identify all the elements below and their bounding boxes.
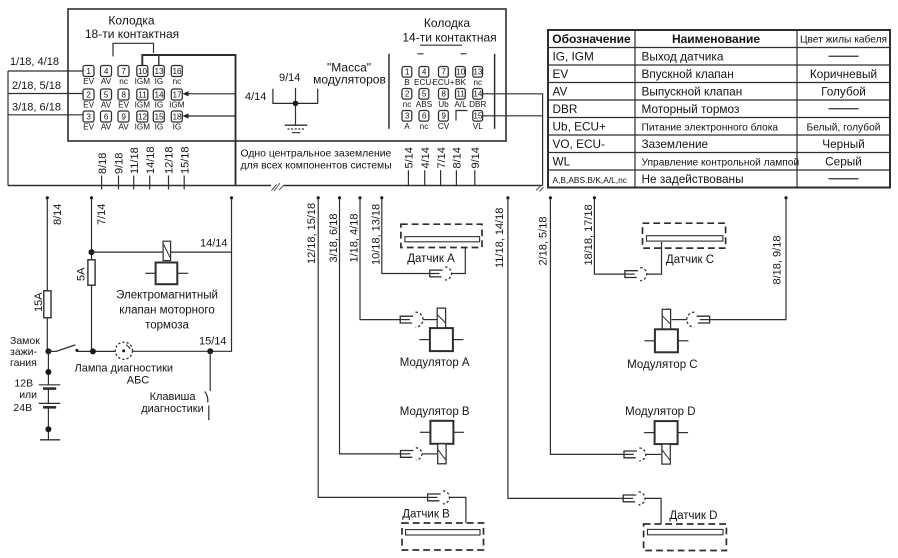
connector X7 Модулятор D plug bbox=[624, 451, 637, 458]
svg-text:15/14: 15/14 bbox=[199, 336, 227, 348]
wire stub 12/18 bbox=[168, 176, 170, 190]
J1 pin 18 bbox=[171, 111, 182, 122]
battery GB1 12V/24V bbox=[47, 351, 49, 384]
svg-text:2/18, 5/18: 2/18, 5/18 bbox=[538, 217, 550, 266]
wire stub 11/18 bbox=[133, 176, 135, 190]
svg-text:24В: 24В bbox=[13, 402, 32, 414]
wire stub 5/14 bbox=[407, 170, 409, 185]
wire to J1 pin 2 bbox=[8, 93, 83, 95]
svg-text:3/18, 6/18: 3/18, 6/18 bbox=[12, 102, 61, 114]
svg-text:Не задействованы: Не задействованы bbox=[642, 172, 744, 186]
modulator D Модулятор D bbox=[655, 421, 678, 444]
svg-text:IG: IG bbox=[155, 77, 164, 86]
wire ground stem bbox=[295, 88, 297, 125]
svg-text:15: 15 bbox=[473, 112, 483, 121]
svg-text:18: 18 bbox=[172, 112, 182, 121]
J1 pin 3 bbox=[83, 111, 94, 122]
svg-text:ECU+: ECU+ bbox=[432, 78, 454, 87]
J1 label leader bracket bbox=[113, 43, 154, 56]
J1 pin 13 bbox=[153, 66, 164, 77]
svg-text:1: 1 bbox=[405, 68, 410, 77]
svg-text:Датчик B: Датчик B bbox=[402, 509, 450, 521]
ground GND1 bbox=[285, 124, 308, 126]
svg-text:5: 5 bbox=[422, 90, 427, 99]
svg-text:6: 6 bbox=[422, 112, 427, 121]
wire 10/18,13/18 vertical bbox=[381, 198, 383, 274]
switch S2 Клавиша диагностики bbox=[209, 351, 211, 391]
J2 row3 spacer bracket bbox=[456, 111, 468, 121]
J1 pin 14 bbox=[153, 89, 164, 100]
svg-text:WL: WL bbox=[553, 154, 571, 168]
wire arrow into J1 pin 18 bbox=[185, 115, 236, 117]
wire Датчик A plug to body bbox=[452, 248, 466, 274]
wire plug to Модулятор B bbox=[422, 453, 437, 455]
svg-text:4/14: 4/14 bbox=[245, 91, 266, 103]
svg-text:EV: EV bbox=[83, 122, 94, 131]
svg-text:18-ти контактная: 18-ти контактная bbox=[85, 27, 179, 41]
svg-text:Модулятор A: Модулятор A bbox=[400, 357, 470, 369]
wire stub 7/14 bbox=[440, 170, 442, 185]
wire 15/14 vertical bbox=[231, 198, 233, 352]
J2 pin 13 bbox=[473, 67, 483, 78]
wire net EV/AV 1-6: left bus vertical bbox=[7, 71, 9, 186]
svg-text:ABS: ABS bbox=[416, 100, 433, 109]
svg-text:Одно центральное заземление: Одно центральное заземление bbox=[241, 149, 392, 160]
svg-text:5: 5 bbox=[104, 90, 109, 99]
svg-text:Модулятор D: Модулятор D bbox=[625, 406, 695, 418]
svg-text:Клавиша: Клавиша bbox=[150, 391, 197, 403]
svg-text:Наименование: Наименование bbox=[672, 32, 760, 46]
svg-text:9: 9 bbox=[441, 112, 446, 121]
wire to Датчик A plug bbox=[382, 273, 430, 275]
sensor B1 Датчик A body bbox=[401, 224, 482, 247]
svg-text:8/14: 8/14 bbox=[452, 147, 464, 168]
svg-text:10: 10 bbox=[456, 68, 466, 77]
modulator A Модулятор A bbox=[437, 308, 445, 328]
J2 label underline bbox=[420, 44, 462, 46]
svg-text:EV: EV bbox=[118, 100, 129, 109]
J2 pin 10 bbox=[456, 67, 466, 78]
sensor B4 Датчик D body bbox=[644, 524, 727, 551]
connector J2 "Колодка 14-ти контактная" title bbox=[402, 16, 496, 45]
wire 7/14 vertical bbox=[91, 198, 93, 352]
J1 pin 6 bbox=[101, 111, 112, 122]
svg-text:Коричневый: Коричневый bbox=[810, 67, 877, 81]
svg-text:nc: nc bbox=[403, 100, 412, 109]
junction diag key bbox=[207, 348, 213, 354]
J2 pin 11 bbox=[456, 89, 466, 100]
wire J2 pin 15 VL to harness bbox=[483, 115, 543, 117]
wire 3/18,6/18 vertical bbox=[339, 198, 341, 454]
svg-text:nc: nc bbox=[420, 122, 429, 131]
ECU box bbox=[68, 9, 506, 141]
wire to Датчик D plug bbox=[508, 497, 623, 499]
J2 pin 4 bbox=[419, 67, 429, 78]
battery terminal plate bbox=[40, 439, 60, 441]
svg-text:1: 1 bbox=[86, 67, 91, 76]
J2 pin 1 bbox=[402, 67, 412, 78]
svg-text:Цвет жилы кабеля: Цвет жилы кабеля bbox=[800, 34, 887, 46]
svg-text:1/18, 4/18: 1/18, 4/18 bbox=[10, 56, 59, 68]
svg-text:Впускной клапан: Впускной клапан bbox=[642, 67, 734, 81]
svg-text:IGM: IGM bbox=[135, 122, 151, 131]
J1 pin 12 bbox=[137, 111, 148, 122]
wire plug to Модулятор C bbox=[672, 319, 687, 321]
svg-text:7: 7 bbox=[121, 67, 126, 76]
svg-text:3: 3 bbox=[405, 112, 410, 121]
connector X4 Датчик B plug bbox=[428, 494, 441, 501]
svg-text:AV: AV bbox=[118, 122, 129, 131]
wire 1/18,4/18 vertical bbox=[359, 198, 361, 320]
svg-text:5A: 5A bbox=[76, 267, 88, 281]
wire stub 9/14 bbox=[474, 170, 476, 185]
svg-text:Лампа диагностики: Лампа диагностики bbox=[75, 363, 174, 375]
J1 pin 17 bbox=[171, 89, 182, 100]
svg-text:АБС: АБС bbox=[127, 375, 149, 387]
solenoid valve Y1 body bbox=[156, 263, 178, 285]
junction bbox=[293, 101, 299, 107]
connector X3 Модулятор B plug bbox=[401, 451, 414, 458]
connector X1 Датчик A plug bbox=[430, 270, 443, 277]
wire to modulator A plug bbox=[360, 319, 400, 321]
svg-text:15A: 15A bbox=[33, 292, 45, 312]
J1 pin 10 bbox=[137, 66, 148, 77]
svg-text:12/18: 12/18 bbox=[164, 146, 176, 174]
wire stub 8/18 bbox=[101, 176, 103, 190]
svg-text:Колодка: Колодка bbox=[424, 16, 470, 30]
svg-text:1/18, 4/18: 1/18, 4/18 bbox=[349, 214, 361, 263]
svg-text:3: 3 bbox=[86, 112, 91, 121]
svg-text:14: 14 bbox=[473, 90, 483, 99]
wire to Датчик B plug bbox=[318, 496, 427, 498]
svg-text:8/18, 9/18: 8/18, 9/18 bbox=[772, 236, 784, 285]
svg-text:9: 9 bbox=[121, 112, 126, 121]
wire to J1 pin 1 bbox=[8, 70, 83, 72]
svg-text:EV: EV bbox=[83, 100, 94, 109]
J1 pin 4 bbox=[101, 66, 112, 77]
svg-text:A,B,ABS.B/K,A/L,nc: A,B,ABS.B/K,A/L,nc bbox=[553, 175, 627, 185]
harness break mark bbox=[272, 183, 285, 191]
svg-text:AV: AV bbox=[101, 100, 112, 109]
svg-text:B: B bbox=[404, 78, 410, 87]
J1 pin 1 bbox=[83, 66, 94, 77]
svg-text:Выход датчика: Выход датчика bbox=[642, 49, 724, 63]
svg-text:8: 8 bbox=[441, 90, 446, 99]
svg-text:для всех компонентов системы: для всех компонентов системы bbox=[241, 161, 392, 172]
svg-text:nc: nc bbox=[473, 78, 482, 87]
svg-text:DBR: DBR bbox=[553, 102, 578, 116]
svg-text:Питание электронного блока: Питание электронного блока bbox=[642, 121, 779, 133]
J1 pin 7 bbox=[118, 66, 129, 77]
svg-text:тормоза: тормоза bbox=[145, 320, 189, 332]
svg-text:Белый, голубой: Белый, голубой bbox=[807, 121, 881, 133]
svg-text:CV: CV bbox=[438, 122, 450, 131]
J2 pin 6 bbox=[419, 111, 429, 122]
svg-text:DBR: DBR bbox=[469, 100, 486, 109]
J2 pin 2 bbox=[402, 89, 412, 100]
svg-text:Черный: Черный bbox=[822, 137, 865, 151]
wire Датчик D plug to body bbox=[645, 498, 661, 524]
svg-text:VL: VL bbox=[473, 122, 483, 131]
connector J1 "Колодка 18-ти контактная" title bbox=[85, 14, 179, 42]
wire Датчик B plug to body bbox=[449, 497, 466, 523]
svg-text:12: 12 bbox=[138, 112, 148, 121]
svg-text:17: 17 bbox=[172, 90, 182, 99]
svg-text:4: 4 bbox=[104, 67, 109, 76]
svg-text:4: 4 bbox=[422, 68, 427, 77]
svg-text:18/18, 17/18: 18/18, 17/18 bbox=[583, 204, 595, 265]
wire to modulator C plug bbox=[710, 319, 786, 321]
svg-text:12/18, 15/18: 12/18, 15/18 bbox=[306, 203, 318, 264]
svg-text:Ub, ECU+: Ub, ECU+ bbox=[553, 119, 607, 133]
modulator B Модулятор B bbox=[430, 421, 453, 444]
svg-text:15/18: 15/18 bbox=[179, 146, 191, 174]
svg-text:2: 2 bbox=[405, 90, 410, 99]
svg-text:2/18, 5/18: 2/18, 5/18 bbox=[12, 80, 61, 92]
wire 14/14 horizontal bbox=[92, 251, 232, 253]
wire J2 pin 14 DBR to harness bbox=[483, 94, 543, 186]
svg-text:nc: nc bbox=[119, 77, 128, 86]
J1 pin 15 bbox=[153, 111, 164, 122]
wire plug to Модулятор D bbox=[646, 453, 661, 455]
svg-text:ECU-: ECU- bbox=[414, 78, 434, 87]
svg-text:Датчик D: Датчик D bbox=[669, 510, 717, 522]
svg-text:Выпускной клапан: Выпускной клапан bbox=[642, 84, 743, 98]
wire 18/18,17/18 vertical bbox=[593, 198, 595, 275]
J2 pin 5 bbox=[419, 89, 429, 100]
svg-text:9/14: 9/14 bbox=[279, 72, 300, 84]
svg-text:4/14: 4/14 bbox=[420, 147, 432, 168]
wire stub 14/18 bbox=[149, 176, 151, 190]
svg-text:7/14: 7/14 bbox=[436, 147, 448, 168]
wire 12/18,15/18 vertical bbox=[317, 198, 319, 498]
J2 pin 7 bbox=[439, 67, 449, 78]
switch S1 Замок зажигания bbox=[45, 348, 51, 354]
svg-text:BK: BK bbox=[455, 78, 466, 87]
wire plug to Модулятор A bbox=[423, 319, 437, 321]
J1 pin 5 bbox=[101, 89, 112, 100]
svg-text:9/18: 9/18 bbox=[114, 153, 126, 174]
svg-text:10/18, 13/18: 10/18, 13/18 bbox=[370, 204, 382, 265]
svg-text:7/14: 7/14 bbox=[96, 204, 108, 225]
svg-text:AV: AV bbox=[101, 77, 112, 86]
svg-text:14/14: 14/14 bbox=[200, 238, 228, 250]
connector X8 Датчик D plug bbox=[623, 495, 636, 502]
svg-text:A: A bbox=[404, 122, 410, 131]
svg-text:11: 11 bbox=[138, 90, 147, 99]
modulator C Модулятор C bbox=[662, 309, 670, 329]
J2 left bracket bar bbox=[388, 54, 390, 129]
svg-text:14-ти контактная: 14-ти контактная bbox=[402, 31, 496, 45]
sensor B3 Датчик C body bbox=[643, 223, 726, 248]
node: масса модуляторов bracket bbox=[273, 89, 318, 104]
svg-text:11/18: 11/18 bbox=[129, 147, 141, 174]
svg-text:IG: IG bbox=[155, 100, 164, 109]
wire stub 15/18 bbox=[183, 176, 185, 190]
svg-text:диагностики: диагностики bbox=[141, 403, 204, 415]
svg-text:Колодка: Колодка bbox=[108, 14, 154, 28]
connector X6 Модулятор C plug bbox=[697, 316, 710, 323]
svg-text:10: 10 bbox=[138, 67, 148, 76]
connector X5 Датчик C plug bbox=[625, 271, 638, 278]
svg-text:12В: 12В bbox=[14, 378, 33, 390]
svg-text:VO, ECU-: VO, ECU- bbox=[553, 137, 606, 151]
wire to Датчик C plug bbox=[594, 273, 625, 275]
svg-text:EV: EV bbox=[83, 77, 94, 86]
fuse F1 15A bbox=[44, 291, 51, 318]
svg-text:или: или bbox=[19, 389, 37, 401]
legend table bbox=[548, 30, 890, 188]
wire stub 8/14 bbox=[455, 170, 457, 185]
svg-text:16: 16 bbox=[172, 67, 182, 76]
wire stub 4/14 bbox=[424, 170, 426, 185]
wire 11/18,14/18 vertical bbox=[507, 198, 509, 499]
wire 8/18,9/18 vertical bbox=[785, 198, 787, 320]
svg-text:nc: nc bbox=[173, 77, 182, 86]
J1 pin 9 bbox=[118, 111, 129, 122]
svg-text:IG: IG bbox=[173, 122, 182, 131]
svg-text:IG, IGM: IG, IGM bbox=[553, 49, 594, 63]
svg-text:11/18, 14/18: 11/18, 14/18 bbox=[494, 208, 506, 268]
J1 pin 8 bbox=[118, 89, 129, 100]
wire IG net: pins 10,13 top bus bbox=[142, 55, 235, 186]
svg-text:2: 2 bbox=[86, 90, 91, 99]
wire stub 9/18 bbox=[118, 176, 120, 190]
svg-text:14: 14 bbox=[154, 90, 164, 99]
svg-text:Управление контрольной лампой: Управление контрольной лампой bbox=[642, 157, 800, 168]
svg-text:8/18: 8/18 bbox=[97, 153, 109, 174]
svg-text:EV: EV bbox=[553, 67, 569, 81]
svg-text:Моторный тормоз: Моторный тормоз bbox=[642, 102, 740, 116]
svg-text:8: 8 bbox=[121, 90, 126, 99]
svg-text:AV: AV bbox=[553, 84, 568, 98]
J2 pin 14 bbox=[473, 89, 483, 100]
svg-text:8/14: 8/14 bbox=[52, 204, 64, 225]
wire to modulator D plug bbox=[550, 453, 624, 455]
svg-text:модуляторов: модуляторов bbox=[313, 73, 386, 87]
wire Датчик C plug to body bbox=[647, 242, 662, 274]
svg-text:Электромагнитный: Электромагнитный bbox=[116, 290, 218, 302]
wire lamp to 15/14 bbox=[133, 350, 232, 352]
J2 pin 3 bbox=[402, 111, 412, 122]
svg-text:Модулятор B: Модулятор B bbox=[400, 406, 470, 418]
wire 2/18,5/18 vertical bbox=[549, 198, 551, 455]
wire arrow into J1 pin 17 bbox=[185, 93, 236, 95]
svg-text:клапан моторного: клапан моторного bbox=[119, 305, 215, 317]
svg-text:Серый: Серый bbox=[825, 154, 862, 168]
svg-text:IG: IG bbox=[155, 122, 164, 131]
fuse F2 5A bbox=[88, 260, 95, 285]
J2 pin 8 bbox=[439, 89, 449, 100]
J2 pin 9 bbox=[439, 111, 449, 122]
sensor B2 Датчик B body bbox=[402, 523, 484, 550]
svg-text:Голубой: Голубой bbox=[821, 84, 866, 98]
J2 pin 15 bbox=[473, 111, 483, 122]
wire to modulator B plug bbox=[340, 453, 401, 455]
svg-text:A/L: A/L bbox=[454, 100, 467, 109]
svg-text:IGM: IGM bbox=[135, 77, 151, 86]
svg-text:гания: гания bbox=[10, 357, 37, 369]
svg-text:Ub: Ub bbox=[438, 100, 449, 109]
J1 pin 11 bbox=[137, 89, 148, 100]
junction 7/14-14/14 bbox=[89, 249, 95, 255]
svg-text:Модулятор C: Модулятор C bbox=[627, 359, 697, 371]
svg-text:13: 13 bbox=[154, 67, 164, 76]
connector X2 Модулятор A plug bbox=[400, 316, 413, 323]
svg-text:13: 13 bbox=[473, 68, 483, 77]
svg-text:7: 7 bbox=[441, 68, 446, 77]
J1 pin 16 bbox=[171, 66, 182, 77]
svg-text:Датчик A: Датчик A bbox=[407, 253, 455, 265]
wire to J1 pin 3 bbox=[8, 114, 83, 116]
solenoid valve Y1 coil stem bbox=[163, 241, 171, 260]
wire ignition to lamp bbox=[77, 350, 116, 352]
svg-text:6: 6 bbox=[104, 112, 109, 121]
svg-text:Датчик C: Датчик C bbox=[666, 254, 714, 266]
svg-text:AV: AV bbox=[101, 122, 112, 131]
svg-text:5/14: 5/14 bbox=[404, 147, 416, 168]
svg-text:14/18: 14/18 bbox=[145, 146, 157, 174]
wire central harness bus bbox=[8, 185, 271, 187]
J2 right bracket bar bbox=[494, 54, 496, 129]
svg-text:11: 11 bbox=[456, 90, 465, 99]
svg-text:3/18, 6/18: 3/18, 6/18 bbox=[328, 214, 340, 263]
harness corner mark bbox=[536, 186, 544, 192]
svg-text:Обозначение: Обозначение bbox=[552, 32, 631, 46]
J1 pin 2 bbox=[83, 89, 94, 100]
svg-text:IGM: IGM bbox=[169, 100, 185, 109]
svg-text:IGM: IGM bbox=[135, 100, 151, 109]
svg-text:Заземление: Заземление bbox=[642, 137, 709, 151]
svg-text:9/14: 9/14 bbox=[470, 147, 482, 168]
svg-text:15: 15 bbox=[154, 112, 164, 121]
solenoid valve Y1 leads bbox=[145, 272, 155, 274]
lamp H1 Лампа диагностики АБС bbox=[115, 342, 132, 359]
wire 8/14 vertical bbox=[46, 198, 48, 352]
